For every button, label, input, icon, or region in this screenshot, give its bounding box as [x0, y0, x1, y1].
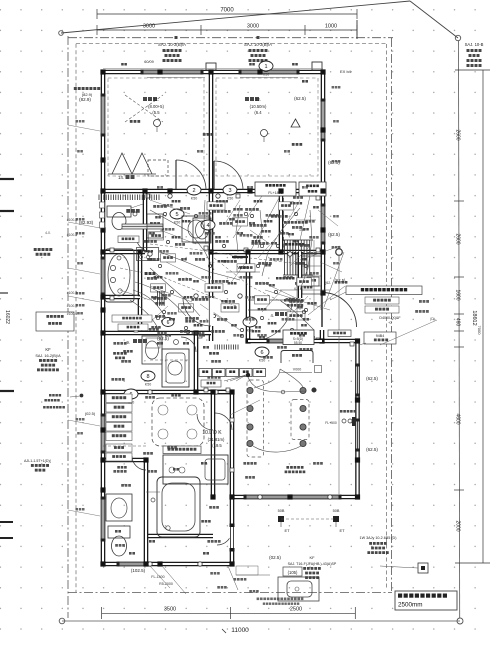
- svg-text:4600: 4600: [455, 413, 461, 424]
- svg-text:SAJ. 10-2(B)/A: SAJ. 10-2(B)/A: [244, 42, 272, 47]
- svg-text:94B4: 94B4: [376, 334, 384, 338]
- svg-text:11.: 11.: [153, 97, 159, 102]
- svg-text:2600: 2600: [455, 233, 461, 244]
- svg-text:(102.5): (102.5): [131, 568, 146, 573]
- svg-text:1: 1: [264, 64, 267, 70]
- svg-text:2600: 2600: [455, 129, 461, 140]
- svg-text:KF: KF: [45, 347, 51, 352]
- svg-text:1600: 1600: [455, 289, 461, 300]
- svg-text:K50: K50: [191, 197, 197, 201]
- svg-text:(8.00+5): (8.00+5): [148, 104, 164, 109]
- svg-text:FL-1500: FL-1500: [151, 575, 164, 579]
- svg-text:SAJ. 10-2(B)/A: SAJ. 10-2(B)/A: [158, 42, 186, 47]
- svg-text:AJL1-1.5T+1(D)(: AJL1-1.5T+1(D)(: [24, 459, 52, 463]
- svg-text:KF: KF: [309, 555, 315, 560]
- svg-text:SAJ. 10-B: SAJ. 10-B: [465, 42, 484, 47]
- svg-text:2: 2: [192, 188, 195, 194]
- svg-text:+7: +7: [388, 321, 392, 325]
- svg-text:50B: 50B: [333, 509, 340, 513]
- svg-text:(62.5): (62.5): [366, 447, 378, 452]
- svg-text:2000: 2000: [455, 520, 461, 531]
- svg-text:1+0: 1+0: [288, 297, 294, 301]
- svg-text:K50: K50: [263, 73, 269, 77]
- svg-text:FL+500: FL+500: [325, 421, 337, 425]
- svg-text:6: 6: [167, 320, 170, 326]
- svg-text:5: 5: [175, 212, 178, 218]
- svg-text:11000: 11000: [231, 627, 249, 634]
- svg-text:8: 8: [146, 374, 149, 380]
- svg-text:1W 3AJy 10-2.6B5 (D): 1W 3AJy 10-2.6B5 (D): [360, 536, 397, 540]
- svg-text:7000: 7000: [220, 8, 234, 14]
- svg-text:K50: K50: [259, 359, 265, 363]
- svg-text:(82.9): (82.9): [82, 92, 93, 97]
- svg-text:12.: 12.: [255, 97, 261, 102]
- svg-text:R5-2000: R5-2000: [159, 582, 173, 586]
- svg-text:ET: ET: [339, 528, 345, 533]
- svg-text:(62.5): (62.5): [328, 232, 340, 237]
- svg-text:K50: K50: [227, 197, 233, 201]
- svg-text:7: 7: [248, 320, 251, 326]
- svg-text:(6.4: (6.4: [254, 110, 262, 115]
- svg-text:(62.5): (62.5): [294, 96, 306, 101]
- svg-text:(02.5): (02.5): [85, 411, 96, 416]
- svg-text:(19.5: (19.5: [212, 443, 222, 448]
- svg-text:3500: 3500: [164, 607, 176, 613]
- svg-text:(31.81m): (31.81m): [208, 437, 225, 442]
- svg-text:9.: 9.: [127, 340, 131, 345]
- svg-text:(D)-: (D)-: [430, 317, 436, 321]
- svg-text:3000: 3000: [247, 24, 259, 30]
- svg-text:460: 460: [455, 318, 461, 327]
- svg-text:4-: 4-: [211, 260, 214, 264]
- svg-text:7000: 7000: [477, 326, 482, 336]
- svg-text:4.: 4.: [271, 313, 275, 318]
- svg-text:4-0.: 4-0.: [45, 231, 51, 235]
- svg-text:2500mm: 2500mm: [398, 602, 423, 609]
- svg-text:3000: 3000: [143, 24, 155, 30]
- svg-text:EX b4: EX b4: [340, 69, 352, 74]
- svg-text:6: 6: [260, 350, 263, 356]
- svg-text:SAJ. 16-2(B)/A: SAJ. 16-2(B)/A: [35, 354, 61, 358]
- svg-text:(02.5): (02.5): [157, 336, 169, 341]
- svg-text:V000: V000: [293, 368, 301, 372]
- svg-text:1000: 1000: [325, 24, 337, 30]
- svg-text:16022: 16022: [4, 310, 10, 324]
- svg-text:10.L D K: 10.L D K: [202, 430, 222, 436]
- svg-text:(82.9): (82.9): [79, 97, 91, 102]
- svg-text:D4000-(X)&F: D4000-(X)&F: [379, 316, 401, 320]
- svg-text:ET: ET: [284, 528, 290, 533]
- svg-text:(10.50m): (10.50m): [250, 104, 267, 109]
- svg-text:(62.: (62.: [325, 281, 331, 285]
- svg-text:50B: 50B: [278, 509, 285, 513]
- svg-text:(02.5): (02.5): [269, 555, 281, 560]
- svg-text:(62.5): (62.5): [366, 376, 378, 381]
- svg-text:2500: 2500: [290, 607, 302, 613]
- svg-text:#100-6: #100-6: [67, 312, 78, 316]
- svg-text:4: 4: [206, 223, 209, 229]
- svg-text:18612: 18612: [471, 310, 477, 325]
- svg-text:SAJ. T16-F(JFA(HB.)-43(A)SP: SAJ. T16-F(JFA(HB.)-43(A)SP: [288, 562, 337, 566]
- svg-text:55.50: 55.50: [294, 341, 302, 345]
- svg-text:3: 3: [228, 188, 231, 194]
- svg-text:K50: K50: [145, 383, 151, 387]
- svg-text:(105): (105): [288, 570, 298, 575]
- svg-text:(5.5: (5.5: [152, 110, 160, 115]
- svg-text:60/09: 60/09: [144, 60, 154, 64]
